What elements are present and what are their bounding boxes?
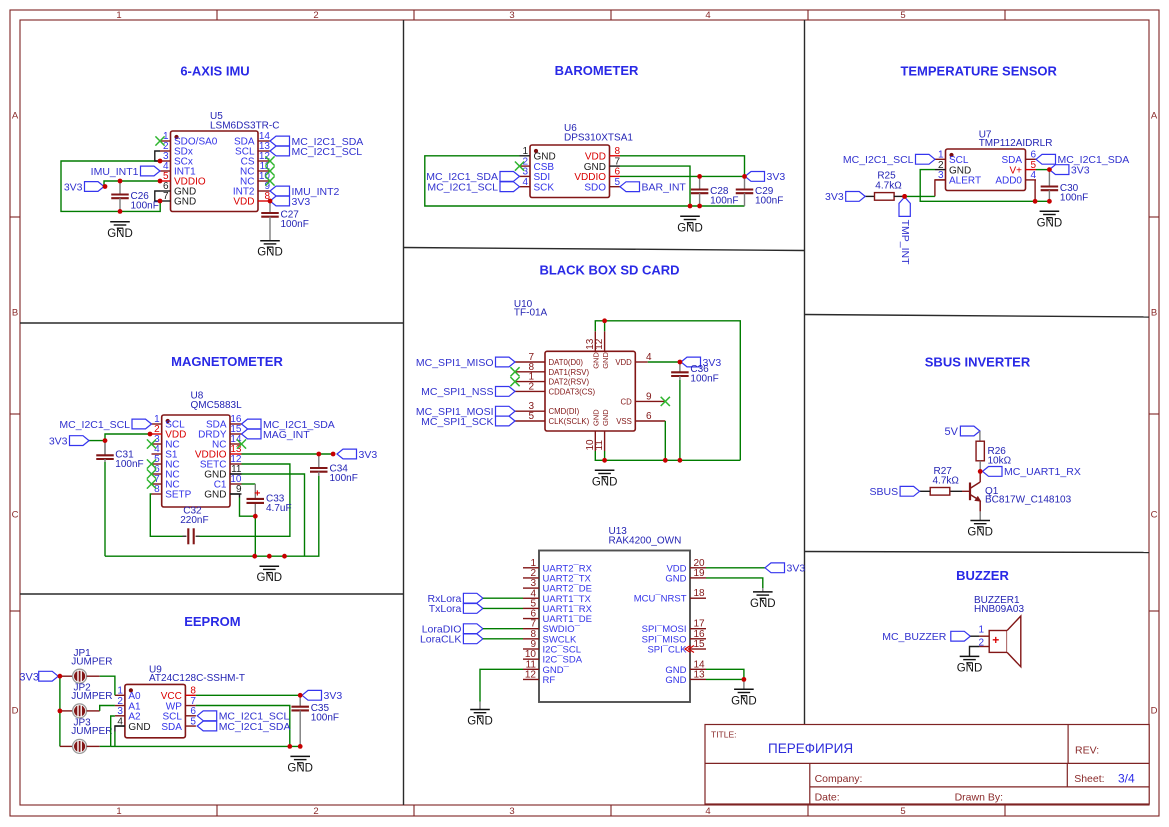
svg-text:REV:: REV: bbox=[1075, 745, 1099, 757]
svg-text:5: 5 bbox=[528, 411, 534, 422]
svg-text:MC_UART1_RX: MC_UART1_RX bbox=[1004, 466, 1081, 478]
svg-text:BAR_INT: BAR_INT bbox=[642, 182, 687, 194]
svg-text:MC_I2C1_SCL: MC_I2C1_SCL bbox=[427, 182, 498, 194]
svg-text:MC_SPI1_MISO: MC_SPI1_MISO bbox=[416, 357, 494, 369]
svg-text:1: 1 bbox=[978, 625, 984, 636]
svg-text:GND: GND bbox=[287, 762, 313, 774]
svg-text:3V3: 3V3 bbox=[787, 563, 806, 575]
svg-text:TITLE:: TITLE: bbox=[711, 730, 737, 740]
svg-text:100nF: 100nF bbox=[311, 713, 339, 724]
svg-text:4: 4 bbox=[705, 10, 710, 21]
svg-text:BUZZER: BUZZER bbox=[956, 568, 1009, 583]
svg-text:100nF: 100nF bbox=[690, 374, 718, 385]
svg-text:DPS310XTSA1: DPS310XTSA1 bbox=[564, 132, 633, 143]
svg-text:5V: 5V bbox=[945, 426, 959, 438]
svg-text:SDO: SDO bbox=[584, 182, 606, 193]
svg-text:3V3: 3V3 bbox=[19, 671, 39, 683]
svg-text:GND: GND bbox=[957, 662, 983, 674]
svg-text:100nF: 100nF bbox=[710, 196, 738, 207]
svg-text:SDA: SDA bbox=[161, 722, 182, 733]
svg-text:+: + bbox=[254, 488, 260, 500]
svg-text:D: D bbox=[1151, 705, 1158, 716]
svg-text:GND: GND bbox=[257, 572, 283, 584]
svg-text:100nF: 100nF bbox=[115, 459, 143, 470]
svg-text:Sheet:: Sheet: bbox=[1074, 773, 1104, 785]
svg-text:3V3: 3V3 bbox=[825, 191, 844, 203]
svg-text:Company:: Company: bbox=[815, 773, 863, 785]
svg-text:SCK: SCK bbox=[534, 182, 555, 193]
svg-text:11: 11 bbox=[594, 440, 605, 451]
svg-text:+: + bbox=[992, 633, 999, 647]
svg-text:GND: GND bbox=[592, 352, 601, 369]
svg-text:VDD: VDD bbox=[615, 358, 632, 367]
svg-text:A: A bbox=[12, 110, 19, 121]
svg-text:TxLora: TxLora bbox=[429, 603, 462, 615]
svg-text:4.7kΩ: 4.7kΩ bbox=[933, 476, 960, 487]
svg-text:CDDAT3(CS): CDDAT3(CS) bbox=[549, 387, 596, 396]
svg-text:RF: RF bbox=[543, 675, 556, 686]
svg-text:GND: GND bbox=[601, 352, 610, 369]
svg-text:7: 7 bbox=[163, 191, 169, 202]
svg-text:SBUS INVERTER: SBUS INVERTER bbox=[925, 354, 1031, 369]
svg-text:19: 19 bbox=[694, 568, 706, 579]
svg-text:MAGNETOMETER: MAGNETOMETER bbox=[171, 354, 283, 369]
svg-text:D: D bbox=[12, 705, 19, 716]
svg-text:JUMPER: JUMPER bbox=[71, 657, 112, 668]
svg-text:2: 2 bbox=[528, 381, 534, 392]
svg-text:3V3: 3V3 bbox=[767, 171, 786, 183]
svg-text:ПЕРЕФИРИЯ: ПЕРЕФИРИЯ bbox=[768, 741, 853, 756]
svg-text:4: 4 bbox=[1030, 170, 1036, 181]
svg-text:100nF: 100nF bbox=[131, 201, 159, 212]
svg-text:MC_BUZZER: MC_BUZZER bbox=[882, 631, 947, 643]
svg-text:GND: GND bbox=[107, 228, 133, 240]
svg-text:BC817W_C148103: BC817W_C148103 bbox=[985, 495, 1072, 506]
svg-text:VDD: VDD bbox=[233, 197, 254, 208]
svg-text:1: 1 bbox=[116, 10, 121, 21]
svg-text:GND: GND bbox=[665, 675, 686, 686]
svg-text:GND: GND bbox=[601, 409, 610, 426]
svg-text:RAK4200_OWN: RAK4200_OWN bbox=[609, 536, 682, 547]
svg-text:C: C bbox=[12, 509, 19, 520]
svg-text:8: 8 bbox=[154, 484, 160, 495]
svg-text:BLACK BOX SD CARD: BLACK BOX SD CARD bbox=[539, 262, 679, 277]
svg-text:6: 6 bbox=[646, 411, 652, 422]
svg-text:QMC5883L: QMC5883L bbox=[191, 400, 243, 411]
svg-text:TEMPERATURE SENSOR: TEMPERATURE SENSOR bbox=[900, 64, 1057, 79]
svg-text:3V3: 3V3 bbox=[49, 435, 68, 447]
svg-text:GND: GND bbox=[592, 476, 618, 488]
svg-text:DAT0(D0): DAT0(D0) bbox=[549, 358, 584, 367]
svg-text:220nF: 220nF bbox=[180, 515, 208, 526]
svg-text:DAT1(RSV): DAT1(RSV) bbox=[549, 368, 590, 377]
svg-text:B: B bbox=[1151, 307, 1157, 318]
svg-text:JUMPER: JUMPER bbox=[71, 726, 112, 737]
svg-text:GND: GND bbox=[731, 695, 757, 707]
svg-text:LSM6DS3TR-C: LSM6DS3TR-C bbox=[210, 120, 279, 131]
svg-text:CD: CD bbox=[621, 397, 633, 406]
svg-text:LoraCLK: LoraCLK bbox=[420, 634, 461, 646]
svg-text:MCU¯NRST: MCU¯NRST bbox=[634, 594, 687, 605]
svg-text:3: 3 bbox=[509, 10, 514, 21]
svg-text:4.7uF: 4.7uF bbox=[266, 503, 292, 514]
svg-text:TF-01A: TF-01A bbox=[514, 308, 548, 319]
svg-text:SPI¯CLK: SPI¯CLK bbox=[647, 645, 687, 656]
svg-text:CMD(DI): CMD(DI) bbox=[549, 407, 580, 416]
svg-text:100nF: 100nF bbox=[330, 473, 358, 484]
svg-text:3: 3 bbox=[509, 806, 514, 817]
svg-text:GND: GND bbox=[128, 722, 150, 733]
svg-text:15: 15 bbox=[694, 639, 706, 650]
svg-text:MC_I2C1_SCL: MC_I2C1_SCL bbox=[292, 146, 363, 158]
svg-text:GND: GND bbox=[677, 222, 703, 234]
svg-text:12: 12 bbox=[525, 669, 537, 680]
svg-text:3V3: 3V3 bbox=[324, 690, 343, 702]
svg-text:MC_I2C1_SCL: MC_I2C1_SCL bbox=[843, 154, 914, 166]
svg-text:4.7kΩ: 4.7kΩ bbox=[875, 181, 902, 192]
svg-text:100nF: 100nF bbox=[281, 219, 309, 230]
svg-text:10kΩ: 10kΩ bbox=[988, 455, 1012, 466]
svg-text:5: 5 bbox=[190, 716, 196, 727]
svg-text:2: 2 bbox=[313, 806, 318, 817]
svg-text:ALERT: ALERT bbox=[949, 176, 981, 187]
svg-text:3V3: 3V3 bbox=[292, 196, 311, 208]
svg-text:MC_I2C1_SCL: MC_I2C1_SCL bbox=[59, 419, 130, 431]
svg-text:MAG_INT: MAG_INT bbox=[263, 429, 310, 441]
svg-text:GND: GND bbox=[467, 716, 493, 728]
svg-text:12: 12 bbox=[594, 338, 605, 350]
svg-text:MC_SPI1_SCK: MC_SPI1_SCK bbox=[421, 416, 493, 428]
svg-text:GND: GND bbox=[204, 490, 226, 501]
svg-text:MC_I2C1_SDA: MC_I2C1_SDA bbox=[219, 721, 291, 733]
svg-text:18: 18 bbox=[694, 588, 706, 599]
svg-text:6-AXIS IMU: 6-AXIS IMU bbox=[180, 64, 249, 79]
svg-text:5: 5 bbox=[900, 806, 905, 817]
svg-text:CLK(SCLK): CLK(SCLK) bbox=[549, 417, 590, 426]
svg-text:1: 1 bbox=[116, 806, 121, 817]
svg-text:100nF: 100nF bbox=[755, 196, 783, 207]
svg-text:2: 2 bbox=[313, 10, 318, 21]
svg-text:9: 9 bbox=[646, 391, 652, 402]
svg-text:GND: GND bbox=[174, 197, 196, 208]
svg-text:EEPROM: EEPROM bbox=[184, 614, 240, 629]
svg-text:4: 4 bbox=[522, 177, 528, 188]
svg-text:TMP112AIDRLR: TMP112AIDRLR bbox=[979, 138, 1053, 149]
svg-text:100nF: 100nF bbox=[1060, 193, 1088, 204]
svg-text:GND: GND bbox=[1037, 217, 1063, 229]
svg-text:13: 13 bbox=[694, 669, 706, 680]
svg-text:5: 5 bbox=[900, 10, 905, 21]
svg-text:SBUS: SBUS bbox=[870, 486, 899, 498]
svg-text:4: 4 bbox=[705, 806, 710, 817]
svg-text:Date:: Date: bbox=[815, 792, 840, 804]
svg-text:C: C bbox=[1151, 509, 1158, 520]
svg-text:3V3: 3V3 bbox=[64, 181, 83, 193]
svg-text:GND: GND bbox=[665, 573, 686, 584]
svg-text:Drawn By:: Drawn By: bbox=[955, 792, 1003, 804]
svg-text:A: A bbox=[1151, 110, 1158, 121]
svg-text:DAT2(RSV): DAT2(RSV) bbox=[549, 378, 590, 387]
svg-text:GND: GND bbox=[750, 598, 776, 610]
svg-text:BAROMETER: BAROMETER bbox=[555, 63, 639, 78]
svg-text:5: 5 bbox=[614, 177, 620, 188]
svg-text:HNB09A03: HNB09A03 bbox=[974, 604, 1024, 615]
svg-text:SETP: SETP bbox=[165, 490, 191, 501]
svg-text:3V3: 3V3 bbox=[359, 449, 378, 461]
svg-text:GND: GND bbox=[967, 527, 993, 539]
svg-text:AT24C128C-SSHM-T: AT24C128C-SSHM-T bbox=[149, 673, 245, 684]
svg-text:3/4: 3/4 bbox=[1118, 772, 1135, 786]
svg-text:GND: GND bbox=[592, 409, 601, 426]
svg-text:TMP_INT: TMP_INT bbox=[899, 220, 911, 266]
svg-text:B: B bbox=[12, 307, 18, 318]
svg-text:GND: GND bbox=[257, 247, 283, 259]
svg-text:MC_SPI1_NSS: MC_SPI1_NSS bbox=[421, 386, 493, 398]
svg-text:IMU_INT1: IMU_INT1 bbox=[91, 166, 139, 178]
svg-text:JUMPER: JUMPER bbox=[71, 691, 112, 702]
svg-text:3V3: 3V3 bbox=[1071, 164, 1090, 176]
svg-text:VSS: VSS bbox=[616, 417, 632, 426]
svg-text:ADD0: ADD0 bbox=[995, 176, 1022, 187]
